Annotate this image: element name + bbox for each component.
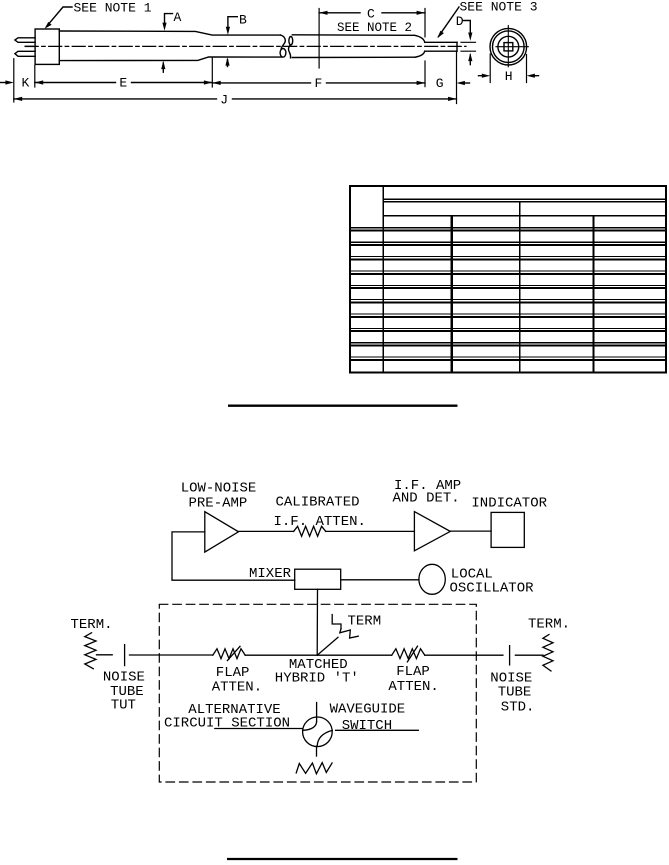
left flap attenuator strike <box>227 646 240 660</box>
end view vertical centerline <box>507 26 509 67</box>
dimension D top arrow <box>468 33 472 41</box>
svg-text:C: C <box>367 7 375 22</box>
svg-text:D: D <box>456 14 464 29</box>
dimension K arrow <box>1 82 7 84</box>
pre-amp triangle U1 <box>205 512 239 552</box>
exhaust tip end <box>456 42 458 51</box>
svg-text:I.F. ATTEN.: I.F. ATTEN. <box>274 514 366 530</box>
break symbol lower loop <box>280 49 286 58</box>
dimension B bottom arrow <box>227 60 229 67</box>
svg-text:TUT: TUT <box>111 698 136 714</box>
table col line 3 <box>519 202 521 373</box>
right noise tube plate <box>509 646 511 665</box>
exhaust tip top <box>425 41 457 43</box>
svg-text:F: F <box>315 76 323 91</box>
extension line x425 lower <box>424 61 426 87</box>
dimension D extension ticks <box>461 42 476 51</box>
wire pre-amp to attenuator <box>239 530 294 532</box>
svg-text:NOISE: NOISE <box>103 669 145 685</box>
svg-text:TERM.: TERM. <box>71 617 113 633</box>
wire junction to right flap <box>317 654 392 656</box>
dimension A bottom arrow <box>162 63 164 72</box>
section label underline <box>215 728 303 730</box>
dimension G arrow <box>464 82 470 84</box>
dimension A bracket <box>165 14 173 23</box>
connector block <box>35 29 59 64</box>
svg-text:A: A <box>174 10 182 25</box>
end view outer circle <box>490 28 527 65</box>
extension line x319.1 <box>318 9 320 69</box>
svg-text:SEE NOTE 1: SEE NOTE 1 <box>74 1 152 16</box>
table body row lines thin <box>350 228 666 357</box>
extension line x34.8 <box>34 66 36 88</box>
svg-text:TERM: TERM <box>348 614 382 630</box>
svg-text:OSCILLATOR: OSCILLATOR <box>450 581 535 597</box>
IF amp triangle U2 <box>414 512 450 551</box>
hybrid T term bracket <box>332 615 341 629</box>
wire right noise tube to termination <box>515 654 543 656</box>
note 1 leader <box>47 7 73 27</box>
svg-text:K: K <box>22 76 30 91</box>
tube body bottom line section B <box>292 56 415 58</box>
svg-text:SEE NOTE 2: SEE NOTE 2 <box>337 21 412 35</box>
wire mixer down to hybrid T junction <box>316 589 318 655</box>
wire IF amp to indicator <box>450 530 491 532</box>
svg-text:AND DET.: AND DET. <box>393 490 460 506</box>
svg-text:ATTEN.: ATTEN. <box>212 679 262 695</box>
end view center square <box>504 43 513 51</box>
table body row lines thick <box>350 231 666 360</box>
H extension lines <box>490 54 526 83</box>
wire mixer to local oscillator <box>341 579 419 581</box>
table header line 2 <box>383 215 666 217</box>
break symbol right S-curve <box>288 45 290 58</box>
waveguide switch stub above <box>316 703 318 722</box>
centerline <box>25 45 466 47</box>
dimension B bracket <box>228 17 237 27</box>
svg-text:HYBRID 'T': HYBRID 'T' <box>275 670 359 686</box>
svg-text:LOW-NOISE: LOW-NOISE <box>181 480 257 496</box>
svg-text:B: B <box>239 13 247 28</box>
hybrid T term squiggle <box>340 629 358 638</box>
svg-text:SWITCH: SWITCH <box>342 718 392 734</box>
pin 2 <box>15 51 35 56</box>
wire right flap to noise tube <box>425 654 503 656</box>
local oscillator circle <box>419 564 445 594</box>
dimension D bottom arrow <box>469 55 471 65</box>
pin 3 (center stub) <box>25 45 35 47</box>
dimension E line <box>35 82 213 84</box>
svg-text:FLAP: FLAP <box>396 664 430 680</box>
table col line 2 <box>451 216 453 373</box>
extension line x13.8 <box>13 59 15 102</box>
waveguide switch arc 2 <box>317 730 332 746</box>
svg-text:MIXER: MIXER <box>249 566 292 582</box>
svg-text:H: H <box>505 69 513 84</box>
svg-text:ATTEN.: ATTEN. <box>388 679 438 695</box>
break symbol upper loop <box>289 37 293 45</box>
switch port termination zigzag <box>296 763 332 774</box>
left termination resistor <box>85 633 96 669</box>
wire attenuator to IF amp <box>326 530 415 532</box>
mixer box <box>295 569 341 589</box>
extension line x456.5 <box>456 52 458 104</box>
wire left noise tube to flap attenuator <box>130 654 213 656</box>
left noise tube plate <box>124 645 126 666</box>
svg-text:J: J <box>220 93 228 108</box>
dimension D bracket <box>463 21 470 33</box>
extension line x425 upper <box>424 9 426 37</box>
waveguide switch arc 1 <box>303 722 317 731</box>
separator line lower <box>227 858 458 860</box>
svg-text:SEE NOTE 3: SEE NOTE 3 <box>460 0 538 15</box>
right termination resistor <box>543 635 553 672</box>
svg-text:STD.: STD. <box>501 700 535 716</box>
table outer border <box>350 186 666 373</box>
dimension J line <box>14 98 457 100</box>
dimension B top arrow <box>226 27 230 35</box>
dimension H arrows <box>479 75 539 77</box>
end view mid circle <box>493 31 525 63</box>
switch label underline <box>336 729 419 731</box>
right flap attenuator zigzag <box>392 649 425 659</box>
end view inner circle <box>498 36 519 57</box>
left flap attenuator zigzag <box>213 649 245 659</box>
dimension C line <box>319 12 425 14</box>
svg-text:CIRCUIT SECTION: CIRCUIT SECTION <box>164 715 290 731</box>
note 3 leader <box>439 7 460 37</box>
svg-text:G: G <box>436 76 444 91</box>
rounded cap top <box>415 35 425 42</box>
end view horizontal centerline <box>496 46 528 48</box>
table header line 1b <box>383 201 666 203</box>
wire left flap to junction <box>245 654 317 656</box>
hybrid T term leader <box>317 637 338 655</box>
table col line 1 <box>382 186 384 373</box>
dimension A top arrow <box>162 23 166 31</box>
break symbol left S-curve <box>281 35 286 49</box>
extension line x212.3 <box>211 58 213 87</box>
rounded cap bottom <box>415 51 425 57</box>
svg-text:WAVEGUIDE: WAVEGUIDE <box>330 701 406 717</box>
table header line 1a <box>383 198 666 200</box>
dimension F line <box>212 82 425 84</box>
tube body top line section B <box>292 34 414 37</box>
indicator box <box>491 512 524 547</box>
tube body bottom line section A <box>59 57 282 61</box>
svg-text:PRE-AMP: PRE-AMP <box>189 496 248 512</box>
svg-text:TUBE: TUBE <box>498 685 532 701</box>
tube body top line section A <box>59 31 280 35</box>
waveguide switch circle <box>303 717 333 747</box>
waveguide switch stub below <box>316 746 318 756</box>
svg-text:TERM.: TERM. <box>528 616 570 632</box>
table col line 4 <box>592 216 594 373</box>
dashed alternative-circuit box <box>159 604 476 782</box>
wire left termination to noise tube <box>97 654 113 656</box>
wire mixer to pre-amp input <box>172 532 295 580</box>
pin 1 <box>15 38 35 43</box>
svg-text:CALIBRATED: CALIBRATED <box>276 494 360 510</box>
svg-text:INDICATOR: INDICATOR <box>471 495 547 511</box>
calibrated IF attenuator zigzag <box>294 526 326 536</box>
svg-text:FLAP: FLAP <box>216 665 250 681</box>
exhaust tip bottom <box>425 50 457 52</box>
svg-text:E: E <box>119 76 127 91</box>
right flap attenuator strike <box>407 646 417 662</box>
separator line upper <box>228 405 458 407</box>
